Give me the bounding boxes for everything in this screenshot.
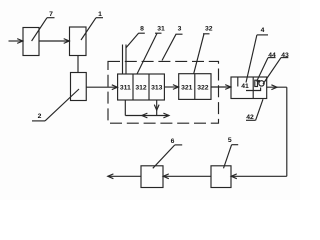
wire 31 to 32 bbox=[164, 85, 178, 90]
svg-text:313: 313 bbox=[151, 85, 163, 92]
svg-text:6: 6 bbox=[171, 138, 175, 145]
label 31 bbox=[137, 26, 165, 75]
box 6 bbox=[141, 166, 163, 188]
box 32 with cells 321 322 bbox=[179, 74, 211, 100]
text 41 with bracket bbox=[241, 83, 260, 91]
wire 1 to 2 bbox=[77, 56, 79, 73]
svg-text:1: 1 bbox=[98, 11, 102, 18]
svg-text:321: 321 bbox=[181, 84, 193, 91]
label 5 bbox=[224, 137, 239, 168]
label 7 bbox=[32, 11, 55, 41]
wire 7 to 1 bbox=[39, 39, 69, 44]
label 6 bbox=[153, 138, 182, 168]
svg-text:311: 311 bbox=[120, 85, 131, 92]
wire 32 to 4 bbox=[211, 85, 231, 90]
dashed box 3 bbox=[108, 61, 219, 123]
box 4 bbox=[231, 77, 267, 99]
svg-text:2: 2 bbox=[38, 113, 42, 120]
svg-text:322: 322 bbox=[197, 84, 209, 91]
wire 6 output arrow bbox=[108, 174, 141, 179]
box 2 bbox=[71, 73, 87, 101]
component 43 : small circle with dot bbox=[258, 81, 264, 87]
element 8 : two vertical probe lines bbox=[123, 45, 127, 75]
label 2 bbox=[32, 89, 79, 121]
label 32 bbox=[194, 26, 213, 74]
svg-text:41: 41 bbox=[241, 83, 249, 90]
slide indicator under box 31 bbox=[125, 100, 169, 118]
wire 4 output with corner down bbox=[267, 85, 287, 177]
svg-text:8: 8 bbox=[140, 26, 144, 33]
label 1 bbox=[81, 11, 103, 40]
label 3 bbox=[162, 26, 183, 61]
svg-text:7: 7 bbox=[49, 11, 53, 18]
wire 2 to 311 bbox=[86, 85, 117, 90]
svg-text:32: 32 bbox=[205, 26, 213, 33]
label 8 bbox=[126, 26, 145, 49]
box 31 with cells 311 312 313 bbox=[118, 74, 165, 100]
wire to box 5 bbox=[231, 174, 287, 179]
wire 5 to 6 bbox=[163, 174, 211, 179]
component 44 : small rect bbox=[255, 80, 258, 86]
label 4 bbox=[246, 27, 268, 83]
box 5 bbox=[211, 166, 231, 188]
label 44 bbox=[257, 52, 276, 82]
wire input arrow into box 7 bbox=[9, 39, 23, 44]
label 43 bbox=[263, 52, 289, 84]
svg-text:5: 5 bbox=[228, 137, 232, 144]
svg-text:4: 4 bbox=[261, 27, 265, 34]
box 7 bbox=[23, 28, 39, 56]
svg-text:3: 3 bbox=[178, 26, 182, 33]
svg-text:31: 31 bbox=[157, 26, 165, 33]
svg-text:312: 312 bbox=[135, 85, 147, 92]
box 1 bbox=[70, 27, 87, 56]
label 42 bbox=[246, 99, 263, 121]
